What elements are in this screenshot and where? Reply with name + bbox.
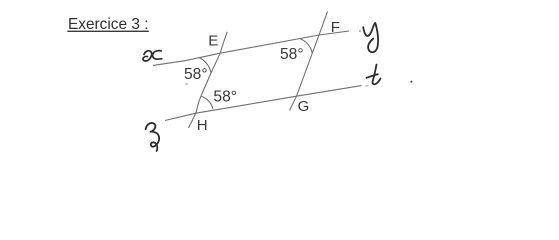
line (xy) top parallel line xyxy=(153,31,349,65)
svg-text:H: H xyxy=(197,117,208,134)
svg-text:Exercice 3 :: Exercice 3 : xyxy=(68,16,149,33)
angle arc at F xyxy=(300,39,313,54)
svg-text:58°: 58° xyxy=(280,46,304,63)
dot right of t xyxy=(410,81,412,83)
svg-text:F: F xyxy=(331,19,340,36)
title "Exercice 3 :" xyxy=(68,16,149,33)
title underline xyxy=(67,31,149,32)
svg-text:G: G xyxy=(298,98,310,115)
svg-text:E: E xyxy=(208,33,218,50)
transversal through E and H xyxy=(189,32,228,128)
handwritten label x (cursive) xyxy=(143,51,152,61)
handwritten label y (cursive) xyxy=(363,23,378,52)
handwritten label t (cursive) xyxy=(373,65,381,85)
handwritten label z (cursive) xyxy=(146,123,160,151)
line (zt) bottom parallel line xyxy=(165,86,362,121)
faint continuation of zt line under t xyxy=(366,85,369,88)
angle arc at H xyxy=(201,96,213,109)
faint speck left of 58 at E xyxy=(185,83,188,86)
angle arc at E xyxy=(199,57,212,73)
transversal through F and G xyxy=(290,12,328,111)
speck left of y xyxy=(359,30,361,32)
svg-text:58°: 58° xyxy=(184,66,208,83)
svg-text:58°: 58° xyxy=(213,88,237,105)
